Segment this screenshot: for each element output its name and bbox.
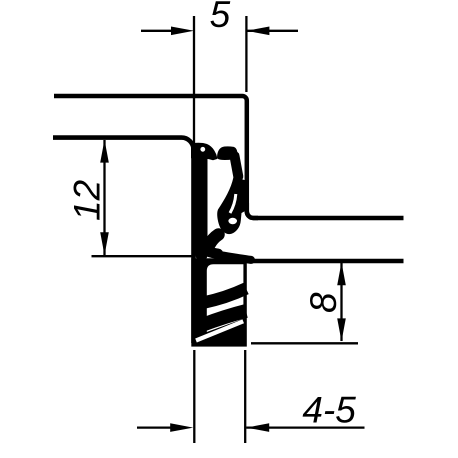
dim line vertical	[340, 263, 342, 342]
dim line vertical	[103, 140, 105, 255]
seal foot block cavity	[207, 264, 244, 332]
seal foot block bottom groove	[196, 321, 243, 340]
dimension 8 (right)	[251, 263, 358, 344]
seal loop white slit	[230, 194, 236, 213]
reference line bottom of dim 12	[92, 255, 194, 257]
dimension 4-5 (bottom)	[137, 350, 365, 443]
arrowhead bottom of dim 12	[100, 232, 109, 255]
arrowhead top of dim 12	[100, 140, 109, 163]
seal profile (bulb)	[191, 143, 251, 260]
arrowhead left of dim 5	[171, 27, 194, 36]
extension line right of dim 4-5	[244, 350, 246, 443]
seal bottom foot	[204, 249, 218, 254]
dim line left tail	[141, 30, 175, 32]
extension line left of dim 5	[193, 16, 195, 144]
svg-text:5: 5	[210, 0, 231, 35]
extension line left of dim 4-5	[193, 350, 195, 443]
arrowhead left of dim 4-5	[170, 423, 193, 432]
dim line right tail	[246, 426, 364, 428]
seal loop white eye	[228, 218, 237, 224]
reference line bottom of dim 8	[251, 342, 358, 344]
arrowhead right of dim 4-5	[246, 423, 269, 432]
seal right limb	[235, 156, 239, 177]
svg-text:4-5: 4-5	[302, 390, 356, 431]
arrowhead right of dim 5	[246, 27, 269, 36]
seal right hump	[217, 146, 238, 160]
seal top bar	[191, 143, 218, 161]
lower frame surface line	[247, 259, 404, 264]
svg-text:12: 12	[66, 179, 107, 221]
seal bottom foot right	[218, 255, 251, 260]
frame step corner redraw	[247, 203, 258, 218]
dim line left tail	[137, 426, 172, 428]
frame upper contour (top surface + right step)	[54, 96, 404, 218]
seal foot block rib 1	[202, 289, 246, 304]
seal foot block rib 2	[202, 311, 246, 325]
extension line right of dim 5	[245, 16, 247, 92]
seal foot block body	[191, 258, 247, 346]
frame groove-side contour (left surface + groove wall)	[53, 138, 194, 343]
arrowhead top of dim 8	[337, 262, 346, 285]
seal white dot	[200, 147, 205, 152]
dimension 5 (top)	[141, 16, 298, 144]
seal stem	[196, 154, 208, 255]
arrowhead bottom of dim 8	[337, 318, 346, 341]
dimension 12 (left)	[92, 140, 194, 256]
seal loop descender	[210, 235, 219, 245]
svg-text:8: 8	[303, 292, 344, 313]
dim line right tail	[246, 30, 298, 32]
seal loop blob	[217, 177, 249, 234]
